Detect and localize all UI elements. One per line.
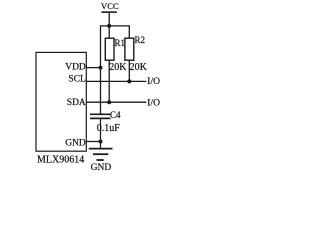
svg-text:20K: 20K: [130, 62, 148, 73]
svg-text:MLX90614: MLX90614: [37, 154, 84, 165]
svg-text:I/O: I/O: [147, 99, 160, 109]
svg-text:GND: GND: [65, 138, 86, 148]
wire R2 bottom lead: [128, 60, 130, 81]
pin VDD wire: [86, 67, 100, 69]
svg-text:VCC: VCC: [101, 1, 119, 11]
junction GND/C4: [99, 140, 103, 144]
wire C4 bottom lead: [100, 118, 102, 147]
power symbol VCC: [101, 12, 117, 26]
wire R1 bottom lead: [108, 60, 110, 102]
junction SDA/R1: [107, 100, 111, 104]
junction VDD/VCC: [99, 66, 103, 70]
svg-text:R2: R2: [135, 35, 146, 45]
svg-text:GND: GND: [91, 163, 112, 173]
pin GND wire: [86, 141, 100, 143]
pin SCL wire to I/O: [86, 80, 146, 82]
ground symbol: [89, 149, 113, 160]
svg-text:SDA: SDA: [67, 98, 86, 108]
svg-text:C4: C4: [110, 110, 121, 120]
junction rail/VCC: [107, 24, 111, 28]
IC U1 MLX90614 box: [36, 52, 86, 151]
svg-text:VDD: VDD: [65, 63, 86, 73]
resistor R2: [125, 38, 134, 60]
wire R1 top lead: [108, 26, 110, 38]
wire VCC rail: [100, 25, 129, 27]
svg-text:I/O: I/O: [147, 77, 160, 87]
svg-text:20K: 20K: [109, 62, 127, 73]
pin SDA wire to I/O: [86, 101, 146, 103]
junction SCL/R2: [127, 79, 131, 83]
wire VCC vertical to C4: [100, 25, 102, 114]
resistor R1: [105, 38, 114, 60]
wire R2 top lead: [128, 25, 130, 38]
svg-text:R1: R1: [115, 38, 126, 48]
svg-text:SCL: SCL: [68, 74, 86, 84]
capacitor C4: [90, 114, 111, 118]
